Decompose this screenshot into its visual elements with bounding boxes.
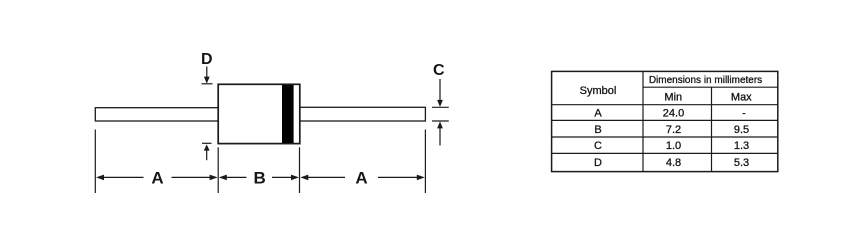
svg-text:A: A xyxy=(594,107,602,119)
dim C top arrow xyxy=(437,79,443,107)
svg-text:B: B xyxy=(594,124,601,136)
table outer border xyxy=(552,71,778,171)
svg-text:A: A xyxy=(151,168,163,187)
extension line far right xyxy=(424,130,426,194)
dim C bottom tick xyxy=(432,120,449,122)
extension line far left xyxy=(94,130,96,194)
svg-text:5.3: 5.3 xyxy=(734,157,749,169)
extension line body-right xyxy=(299,147,301,193)
svg-text:C: C xyxy=(433,62,445,79)
table row line under header xyxy=(643,86,778,88)
table row line under A xyxy=(552,119,778,121)
dim D bottom arrow xyxy=(204,144,210,160)
dim D top arrow xyxy=(204,67,210,84)
svg-text:B: B xyxy=(253,168,265,187)
table row line under Min/Max xyxy=(552,104,778,106)
svg-text:Symbol: Symbol xyxy=(580,85,617,97)
svg-text:C: C xyxy=(594,140,602,152)
svg-text:1.0: 1.0 xyxy=(666,140,681,152)
svg-text:7.2: 7.2 xyxy=(666,124,681,136)
left lead xyxy=(95,108,219,121)
svg-text:Dimensions in millimeters: Dimensions in millimeters xyxy=(649,75,762,86)
table column line Min/Max xyxy=(711,87,713,171)
dim A left arrows and line xyxy=(96,175,218,181)
dim C bottom arrow xyxy=(437,121,443,145)
svg-text:9.5: 9.5 xyxy=(734,124,749,136)
dim A right arrows and line xyxy=(300,175,425,181)
diode body xyxy=(218,84,300,143)
dim B arrows and line xyxy=(219,175,299,181)
svg-text:Max: Max xyxy=(731,91,752,103)
table row line under B xyxy=(552,136,778,138)
svg-text:Min: Min xyxy=(664,91,682,103)
svg-text:4.8: 4.8 xyxy=(666,157,681,169)
table column line Symbol xyxy=(642,71,644,171)
cathode band xyxy=(282,85,294,143)
svg-text:-: - xyxy=(742,107,746,119)
dim D top tick xyxy=(202,83,213,85)
dim C top tick xyxy=(432,106,449,108)
table row line under C xyxy=(552,152,778,154)
svg-text:1.3: 1.3 xyxy=(734,140,749,152)
svg-text:D: D xyxy=(594,157,602,169)
dim D bottom tick xyxy=(202,142,212,144)
extension line body-left xyxy=(217,147,219,193)
svg-text:24.0: 24.0 xyxy=(663,107,684,119)
svg-text:D: D xyxy=(201,51,213,68)
right lead xyxy=(300,107,426,121)
svg-text:A: A xyxy=(355,168,367,187)
